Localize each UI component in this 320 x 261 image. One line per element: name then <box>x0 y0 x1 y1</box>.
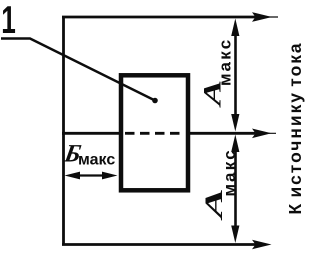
svg-text:К источнику тока: К источнику тока <box>285 41 305 214</box>
svg-text:макс: макс <box>216 38 235 86</box>
svg-text:макс: макс <box>78 152 115 169</box>
wire: top supply line to current source <box>62 16 255 19</box>
svg-text:1: 1 <box>1 0 16 41</box>
arrowhead: bottom line output arrow <box>252 240 272 250</box>
wire: middle line dashed axis through element 1 <box>125 132 185 135</box>
dimension: A max (upper) vertical double arrow <box>231 19 239 132</box>
wire: bottom supply line to current source <box>62 243 257 246</box>
arrowhead: middle line output arrow <box>252 129 272 139</box>
dimension: B max horizontal double arrow <box>65 172 118 180</box>
label: position number 1 <box>1 0 16 41</box>
leader line for position label 1 <box>1 39 158 104</box>
svg-text:макс: макс <box>220 148 239 196</box>
wire: middle supply line (solid part left of element) <box>62 132 121 135</box>
wire: middle supply line (solid part right of element) <box>188 132 255 135</box>
arrowhead: top line output arrow <box>252 12 272 22</box>
wire: left vertical bus line <box>62 16 65 246</box>
component: element 1 (bold rectangle, connected element) <box>121 75 188 190</box>
dimension: A max (lower) vertical double arrow <box>231 135 239 244</box>
